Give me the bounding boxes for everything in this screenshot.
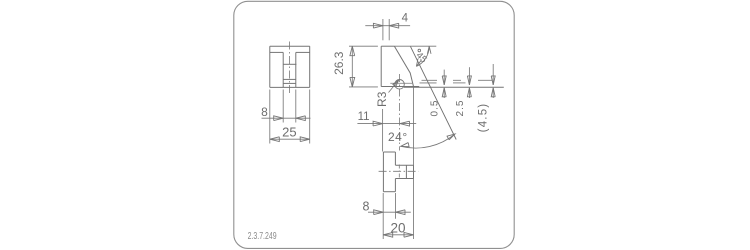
svg-text:2.3.7.249: 2.3.7.249 [248, 230, 277, 242]
svg-text:24°: 24° [388, 130, 408, 144]
svg-text:25: 25 [282, 124, 296, 139]
svg-text:26.3: 26.3 [332, 51, 346, 75]
svg-text:2.5: 2.5 [455, 100, 466, 117]
svg-text:8: 8 [363, 200, 370, 214]
svg-text:20: 20 [390, 221, 405, 236]
svg-text:0.5: 0.5 [430, 100, 441, 117]
svg-text:(4.5): (4.5) [478, 103, 490, 133]
svg-text:11: 11 [358, 111, 370, 123]
svg-text:8: 8 [261, 105, 268, 119]
svg-text:4: 4 [402, 13, 409, 25]
svg-text:R3: R3 [375, 91, 389, 107]
